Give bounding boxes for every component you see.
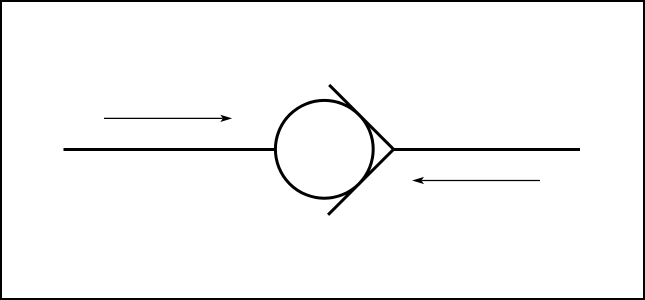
check valve ball (circle) <box>275 100 373 198</box>
wire right segment <box>394 148 580 151</box>
wire left segment <box>64 148 278 151</box>
flow arrow left (head) <box>412 177 424 184</box>
flow arrow right (head) <box>220 115 232 122</box>
check valve seat upper tangent line <box>329 85 393 149</box>
flow arrow left (shaft) <box>422 180 540 182</box>
flow arrow right (shaft) <box>104 117 223 119</box>
check valve seat lower tangent line <box>328 149 394 215</box>
